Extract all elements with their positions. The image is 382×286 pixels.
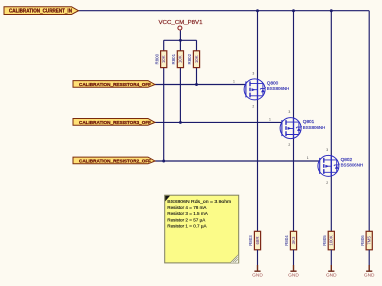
pin 1 label Q802 gate xyxy=(307,156,309,160)
port CALIBRATION_RESISTOR4_OFF xyxy=(73,81,155,89)
wire: pull-up column 3 (R802 leads, down to gate wire 1) xyxy=(196,40,198,84)
svg-text:BSS806NH: BSS806NH xyxy=(267,86,289,91)
wire: column 3 vertical (Q802 to R805) xyxy=(330,11,332,232)
svg-text:Resistor 4 = 78 mA: Resistor 4 = 78 mA xyxy=(167,205,207,210)
resistor R802 (10K pull-up) xyxy=(187,51,199,68)
svg-text:1: 1 xyxy=(269,118,271,122)
svg-text:Resistor 1 = 0.7 µA: Resistor 1 = 0.7 µA xyxy=(167,223,207,228)
resistor R805 (100K calibration) xyxy=(322,231,335,250)
svg-text:R804: R804 xyxy=(284,235,289,246)
power port VCC_CM_P8V1 xyxy=(159,20,203,30)
svg-text:Q801: Q801 xyxy=(303,119,315,124)
wire: pull-up column 1 (R800 leads, down to gate wire 3) xyxy=(163,40,165,161)
wire: VCC rail xyxy=(164,30,197,40)
svg-text:R805: R805 xyxy=(322,235,327,246)
svg-text:CALIBRATION_RESISTOR3_OFF: CALIBRATION_RESISTOR3_OFF xyxy=(79,120,151,126)
pin 2 label Q800 source xyxy=(252,104,254,108)
wire: gate wire 1 (RESISTOR4_OFF to Q800 gate) xyxy=(155,84,246,86)
wire: gate wire 2 (RESISTOR3_OFF to Q801 gate) xyxy=(155,121,282,123)
ground GND under R803 xyxy=(252,265,263,279)
svg-text:100K: 100K xyxy=(329,235,334,245)
wire: R805 to ground xyxy=(330,250,332,265)
svg-text:R802: R802 xyxy=(187,53,192,64)
svg-text:1: 1 xyxy=(307,156,309,160)
resistor R801 (10K pull-up) xyxy=(171,51,184,68)
wire: R806 to ground xyxy=(368,250,370,265)
junction dot R801 column on gate wire 2 xyxy=(179,121,182,124)
wire: pull-up column 2 (R801 leads, down to gate wire 2) xyxy=(179,40,181,122)
svg-text:GND: GND xyxy=(252,273,263,279)
svg-text:7M5: 7M5 xyxy=(367,236,372,245)
transistor Q801 (N-MOSFET BSS806N) xyxy=(280,118,325,139)
svg-text:68R: 68R xyxy=(255,236,260,244)
resistor R804 (3K3 calibration) xyxy=(284,231,297,250)
wire: R803 to ground xyxy=(257,250,259,265)
note: calibration currents annotation xyxy=(165,195,239,263)
svg-text:R801: R801 xyxy=(171,53,176,64)
junction dot R802 column on gate wire 1 xyxy=(195,83,198,86)
transistor Q802 (N-MOSFET BSS806N) xyxy=(318,155,363,176)
svg-text:GND: GND xyxy=(326,273,337,279)
pin 2 label Q801 source xyxy=(288,143,290,147)
resistor R803 (68R calibration) xyxy=(248,231,261,250)
svg-text:Resistor 3 = 1.5 mA: Resistor 3 = 1.5 mA xyxy=(167,211,208,216)
port CALIBRATION_CURRENT_IN xyxy=(4,7,79,15)
junction dot R800 column on gate wire 3 xyxy=(162,160,165,163)
ground GND under R804 xyxy=(288,265,299,279)
junction dot at column 2 / top rail xyxy=(292,9,295,12)
wire: column 2 vertical (Q801 to R804) xyxy=(293,11,295,232)
svg-text:GND: GND xyxy=(364,273,375,279)
svg-text:BSS806NH: BSS806NH xyxy=(303,125,325,130)
svg-text:3: 3 xyxy=(288,110,290,114)
svg-text:R800: R800 xyxy=(154,53,159,64)
wire: column 1 vertical (drain/source of Q800 to R803) xyxy=(257,11,259,232)
svg-text:1: 1 xyxy=(233,80,235,84)
svg-text:10K: 10K xyxy=(161,55,166,63)
wire: column 4 vertical (rail to R806) xyxy=(368,11,370,232)
svg-text:2: 2 xyxy=(288,143,290,147)
port CALIBRATION_RESISTOR3_OFF xyxy=(73,119,155,127)
svg-text:10K: 10K xyxy=(178,55,183,63)
junction dot at column 3 / top rail xyxy=(330,9,333,12)
pin 2 label Q802 source xyxy=(326,181,328,185)
svg-text:10K: 10K xyxy=(194,55,199,63)
port CALIBRATION_RESISTOR2_OFF xyxy=(73,157,155,165)
pin 3 label Q802 drain xyxy=(326,148,328,152)
resistor R800 (10K pull-up) xyxy=(154,51,167,68)
transistor Q800 (N-MOSFET BSS806N) xyxy=(244,79,289,100)
wire: R804 to ground xyxy=(293,250,295,265)
pin 1 label Q801 gate xyxy=(269,118,271,122)
svg-text:CALIBRATION_CURRENT_IN: CALIBRATION_CURRENT_IN xyxy=(9,9,72,15)
resistor R806 (7M5 calibration) xyxy=(360,231,373,250)
svg-text:R806: R806 xyxy=(360,235,365,246)
svg-text:BSS806NH: BSS806NH xyxy=(341,163,363,168)
svg-text:CALIBRATION_RESISTOR2_OFF: CALIBRATION_RESISTOR2_OFF xyxy=(79,159,151,165)
svg-text:VCC_CM_P8V1: VCC_CM_P8V1 xyxy=(159,20,203,26)
ground GND under R806 xyxy=(364,265,375,279)
svg-text:Resistor 2 = 57 µA: Resistor 2 = 57 µA xyxy=(167,217,206,222)
svg-text:3: 3 xyxy=(326,148,328,152)
pin 1 label Q800 gate xyxy=(233,80,235,84)
svg-text:2: 2 xyxy=(326,181,328,185)
svg-text:3K3: 3K3 xyxy=(291,236,296,244)
pin 3 label Q801 drain xyxy=(288,110,290,114)
junction dot at VCC rail / middle pull-up xyxy=(179,39,182,42)
svg-text:3: 3 xyxy=(252,71,254,75)
svg-text:Q800: Q800 xyxy=(267,80,279,85)
svg-text:BSS806N Rds_on = 3.9ohm: BSS806N Rds_on = 3.9ohm xyxy=(167,199,231,204)
junction dot at column 1 / top rail xyxy=(256,9,259,12)
wire: top rail from CALIBRATION_CURRENT_IN to column 4 xyxy=(79,10,370,12)
svg-text:Q802: Q802 xyxy=(341,157,353,162)
svg-text:R803: R803 xyxy=(248,235,253,246)
svg-text:2: 2 xyxy=(252,104,254,108)
svg-text:CALIBRATION_RESISTOR4_OFF: CALIBRATION_RESISTOR4_OFF xyxy=(79,82,151,88)
ground GND under R805 xyxy=(326,265,337,279)
pin 3 label Q800 drain xyxy=(252,71,254,75)
svg-text:GND: GND xyxy=(288,273,299,279)
wire: gate wire 3 (RESISTOR2_OFF to Q802 gate) xyxy=(155,160,320,162)
